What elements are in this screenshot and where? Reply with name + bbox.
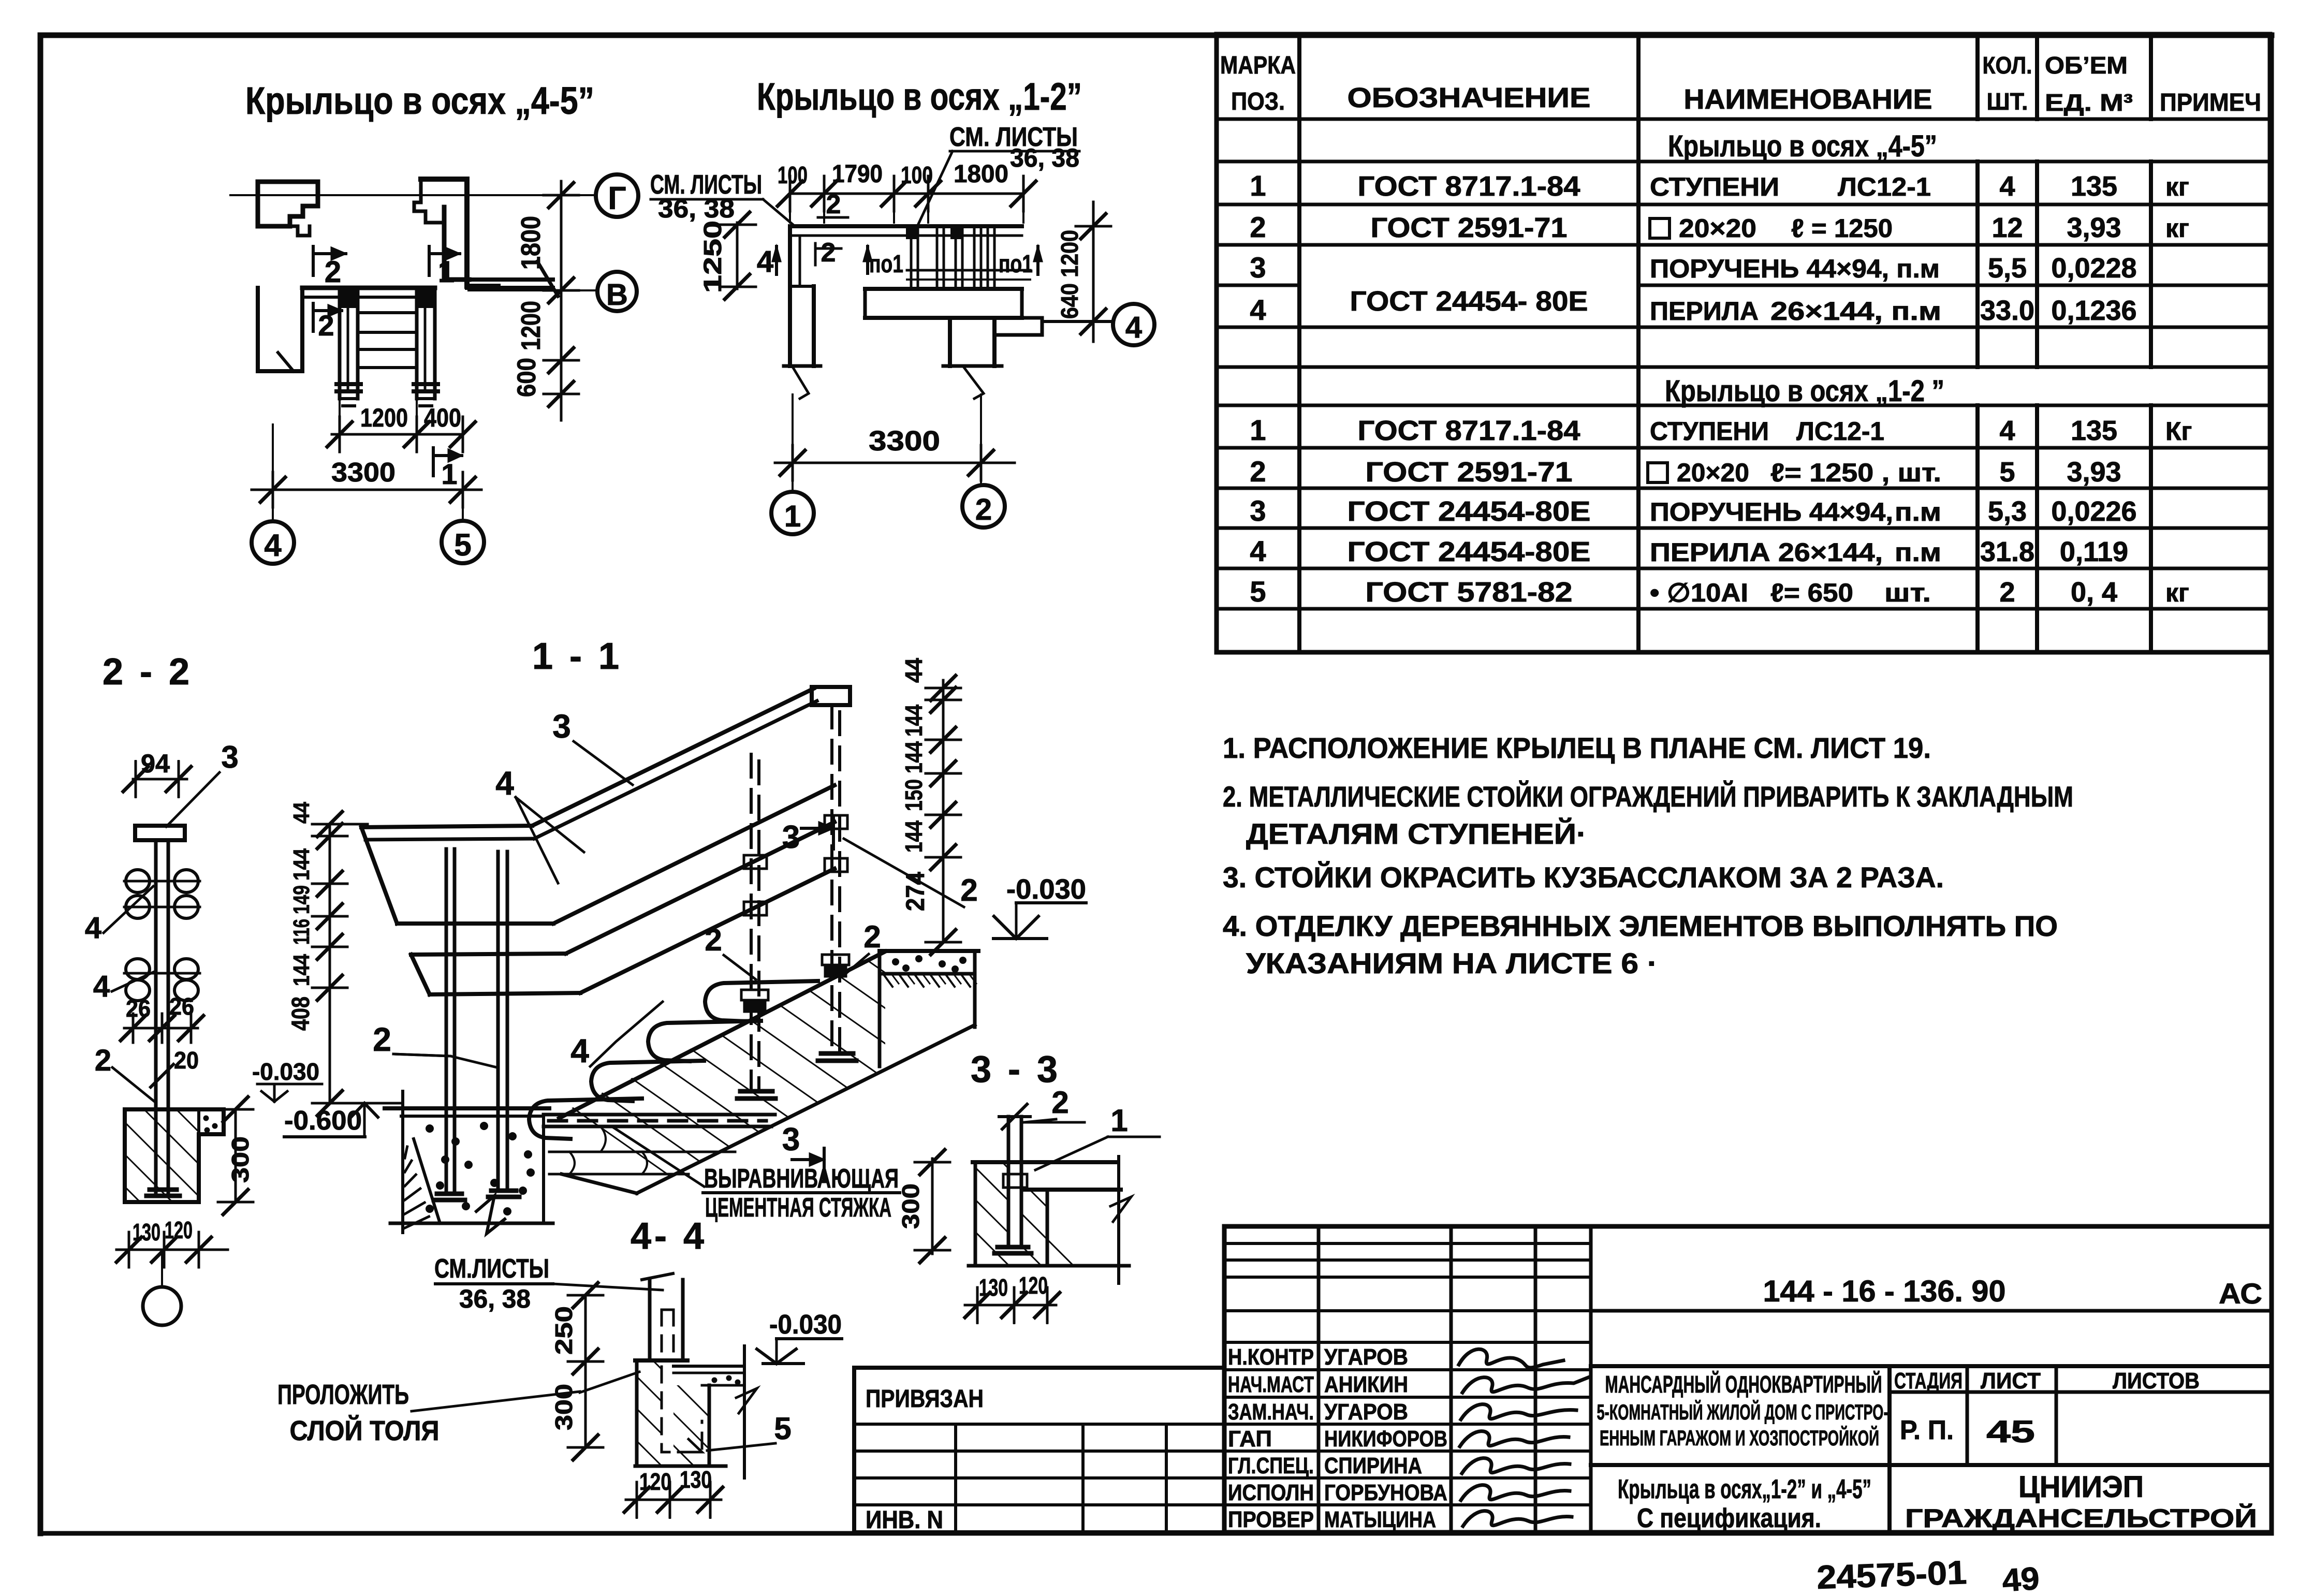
svg-text:ГОСТ 8717.1-84: ГОСТ 8717.1-84 <box>1358 415 1580 446</box>
svg-text:400: 400 <box>424 403 461 432</box>
svg-text:2: 2 <box>960 873 977 907</box>
svg-text:1: 1 <box>1250 414 1266 446</box>
axis bubble В <box>597 272 637 311</box>
svg-text:ПРОЛОЖИТЬ: ПРОЛОЖИТЬ <box>277 1379 409 1410</box>
svg-text:5: 5 <box>774 1411 791 1446</box>
svg-text:АС: АС <box>2219 1277 2262 1310</box>
svg-text:36, 38: 36, 38 <box>1010 143 1079 172</box>
svg-text:100: 100 <box>778 162 808 188</box>
platform ground hatch ticks <box>884 975 892 987</box>
svg-text:кг: кг <box>2165 578 2189 607</box>
svg-text:5: 5 <box>454 528 471 562</box>
spec table outer border <box>1217 34 2270 652</box>
right dim stack 44-144-150-144-274 <box>942 680 945 942</box>
axis bubble 1 <box>771 492 814 534</box>
svg-text:135: 135 <box>2071 171 2117 202</box>
svg-text:СТАДИЯ: СТАДИЯ <box>1894 1368 1963 1394</box>
svg-text:12: 12 <box>1992 212 2023 243</box>
svg-text:КОЛ.: КОЛ. <box>1983 52 2032 79</box>
detail 4-4 dim 250 <box>584 1295 587 1361</box>
svg-text:1: 1 <box>1250 169 1266 202</box>
svg-text:94: 94 <box>141 749 170 778</box>
svg-text:ПОЗ.: ПОЗ. <box>1231 88 1285 115</box>
handrail sloped top lines <box>532 689 814 826</box>
svg-text:ЕННЫМ ГАРАЖОМ И ХОЗПОСТРОЙКОЙ: ЕННЫМ ГАРАЖОМ И ХОЗПОСТРОЙКОЙ <box>1600 1425 1879 1450</box>
mid rail line porch 1-2 <box>907 269 1030 272</box>
svg-text:26×144, п.м: 26×144, п.м <box>1770 297 1941 326</box>
svg-text:ЦНИИЭП: ЦНИИЭП <box>2018 1470 2144 1504</box>
svg-text:20×20: 20×20 <box>1677 458 1749 487</box>
wall end tick В <box>537 261 558 296</box>
title block outer <box>1224 1226 2272 1532</box>
svg-text:2: 2 <box>95 1044 111 1077</box>
svg-text:• ∅10АI: • ∅10АI <box>1650 578 1748 607</box>
svg-text:ГОСТ 2591-71: ГОСТ 2591-71 <box>1366 457 1573 488</box>
cement screed strip <box>544 1113 775 1117</box>
dashed post 2 mid bolt <box>822 955 849 965</box>
svg-text:ПРИВЯЗАН: ПРИВЯЗАН <box>866 1385 984 1413</box>
axis bubble Г <box>596 174 638 217</box>
spec table vertical lines <box>1297 34 1301 652</box>
svg-text:2 - 2: 2 - 2 <box>102 651 193 693</box>
svg-text:640 1200: 640 1200 <box>1056 230 1083 319</box>
rail board 2 sloped <box>566 822 834 954</box>
svg-text:1: 1 <box>438 255 455 289</box>
svg-text:В: В <box>606 278 628 312</box>
svg-text:300: 300 <box>227 1136 254 1183</box>
svg-text:49: 49 <box>2001 1561 2041 1596</box>
svg-text:4. ОТДЕЛКУ ДЕРЕВЯННЫХ ЭЛЕМЕ: 4. ОТДЕЛКУ ДЕРЕВЯННЫХ ЭЛЕМЕНТОВ ВЫПОЛНЯТ… <box>1223 910 2058 942</box>
svg-text:Крыльцо в осях „4-5”: Крыльцо в осях „4-5” <box>245 79 594 122</box>
svg-text:1 - 1: 1 - 1 <box>532 636 622 677</box>
railing posts porch 1-2 <box>910 226 913 289</box>
top dim line 100-1790-100-1800 <box>790 193 1023 195</box>
svg-text:ГАП: ГАП <box>1228 1426 1272 1452</box>
svg-text:ГРАЖДАНСЕЛЬСТРОЙ: ГРАЖДАНСЕЛЬСТРОЙ <box>1905 1503 2257 1533</box>
svg-text:116: 116 <box>289 919 314 945</box>
axis drop lines porch 1-2 <box>792 394 794 492</box>
svg-text:0, 4: 0, 4 <box>2071 577 2117 608</box>
svg-text:5: 5 <box>1999 457 2015 488</box>
detail 2-2 post <box>154 840 158 1192</box>
svg-text:1790: 1790 <box>832 160 883 188</box>
svg-text:5,5: 5,5 <box>1988 253 2027 284</box>
handrail horizontal board (upper) <box>361 826 532 827</box>
svg-text:ЗАМ.НАЧ.: ЗАМ.НАЧ. <box>1228 1399 1314 1425</box>
svg-text:ЛС12-1: ЛС12-1 <box>1838 172 1931 201</box>
svg-text:2: 2 <box>1999 577 2015 608</box>
detail 3-3 wall hatched <box>974 1162 977 1266</box>
svg-text:20: 20 <box>174 1047 199 1074</box>
axis 4 drop line <box>272 424 274 522</box>
svg-text:п.м: п.м <box>1895 497 1941 526</box>
svg-text:120: 120 <box>165 1217 193 1243</box>
svg-text:3. СТОЙКИ ОКРАСИТЬ КУЗБАССЛ: 3. СТОЙКИ ОКРАСИТЬ КУЗБАССЛАКОМ ЗА 2 РАЗ… <box>1223 861 1944 894</box>
svg-text:33.0: 33.0 <box>1980 295 2034 326</box>
svg-text:2. МЕТАЛЛИЧЕСКИЕ СТОЙКИ ОГРА: 2. МЕТАЛЛИЧЕСКИЕ СТОЙКИ ОГРАЖДЕНИЙ ПРИВА… <box>1223 780 2073 813</box>
svg-text:шт.: шт. <box>1884 578 1931 607</box>
svg-text:ГОСТ 24454-80Е: ГОСТ 24454-80Е <box>1348 536 1591 567</box>
svg-text:Г: Г <box>608 181 626 216</box>
svg-text:УГАРОВ: УГАРОВ <box>1324 1344 1408 1370</box>
svg-text:149: 149 <box>289 885 314 914</box>
detail 3-3 step slab <box>973 1160 1118 1164</box>
section mark 1 upper <box>428 246 431 275</box>
platform slab porch 1-2 <box>865 287 1022 291</box>
detail 3-3 base plate <box>998 1245 1028 1250</box>
svg-text:2: 2 <box>373 1021 391 1058</box>
section mark 1 lower <box>432 448 435 476</box>
svg-text:1: 1 <box>441 458 457 490</box>
axis bubble 5 <box>442 521 484 563</box>
detail 4-4 post <box>648 1280 652 1360</box>
svg-text:по1: по1 <box>999 251 1033 278</box>
svg-text:4: 4 <box>93 970 110 1003</box>
axis line В <box>468 289 596 291</box>
dim line 1200-400 <box>332 433 463 436</box>
dashed post 1 base plate <box>740 1089 772 1094</box>
svg-text:ЛИСТ: ЛИСТ <box>1981 1368 2041 1394</box>
svg-text:4: 4 <box>1999 415 2015 446</box>
dashed post 2 base plate <box>821 1051 853 1056</box>
svg-text:ПОРУЧЕНЬ 44×94, п.м: ПОРУЧЕНЬ 44×94, п.м <box>1650 254 1940 283</box>
svg-text:0,0228: 0,0228 <box>2051 253 2136 284</box>
svg-text:ШТ.: ШТ. <box>1987 88 2028 115</box>
title block verticals right part <box>1887 1366 1892 1532</box>
svg-text:п.м: п.м <box>1895 538 1941 567</box>
svg-text:ПЕРИЛА 26×144,: ПЕРИЛА 26×144, <box>1650 538 1883 567</box>
svg-text:ПРИМЕЧ: ПРИМЕЧ <box>2160 89 2261 116</box>
axis bubble 2 <box>962 485 1005 528</box>
svg-text:СЛОЙ ТОЛЯ: СЛОЙ ТОЛЯ <box>290 1415 440 1446</box>
svg-text:2: 2 <box>325 255 341 289</box>
svg-text:кг: кг <box>2165 214 2189 243</box>
svg-text:4: 4 <box>1250 294 1266 326</box>
svg-text:144: 144 <box>289 848 314 881</box>
svg-text:20×20: 20×20 <box>1679 214 1756 243</box>
pit ground top lines <box>385 1106 549 1110</box>
svg-text:-0.030: -0.030 <box>1006 874 1086 905</box>
rail board 2 horizontal <box>411 954 566 955</box>
masonry course lines <box>549 1151 735 1153</box>
svg-text:ℓ= 650: ℓ= 650 <box>1770 578 1853 607</box>
svg-text:4- 4: 4- 4 <box>631 1216 707 1257</box>
detail 2-2 dim 300 <box>235 1109 237 1202</box>
post 2 anchor plate <box>491 1189 516 1193</box>
svg-text:СМ.ЛИСТЫ: СМ.ЛИСТЫ <box>434 1254 549 1284</box>
foundation pit left edge <box>401 1091 404 1233</box>
title block horizontals right part <box>1591 1309 2272 1313</box>
dim line 3300 (1-2) <box>775 462 1015 464</box>
svg-text:0,0226: 0,0226 <box>2051 496 2136 527</box>
stair stringer left (plan) <box>338 288 342 399</box>
svg-text:СТУПЕНИ: СТУПЕНИ <box>1650 417 1769 446</box>
svg-text:3: 3 <box>221 740 238 774</box>
svg-text:СПИРИНА: СПИРИНА <box>1324 1453 1422 1478</box>
pit bottom <box>390 1222 553 1225</box>
svg-text:ГОРБУНОВА: ГОРБУНОВА <box>1324 1480 1447 1505</box>
svg-text:АНИКИН: АНИКИН <box>1324 1372 1408 1397</box>
detail 3-3 bolt on post <box>1003 1174 1027 1188</box>
svg-text:5,3: 5,3 <box>1988 496 2027 527</box>
svg-text:3300: 3300 <box>869 426 940 457</box>
svg-text:3,93: 3,93 <box>2067 212 2121 243</box>
detail 3-3 right edge <box>1117 1156 1120 1283</box>
dashed post 1 mid bolt <box>741 990 768 1000</box>
stair plan 4-5 top edge <box>302 286 435 290</box>
detail 4-4 dim 300 <box>584 1361 587 1447</box>
post 2 (solid) <box>496 852 500 1191</box>
svg-text:1200: 1200 <box>516 301 546 350</box>
svg-text:3: 3 <box>782 1122 800 1158</box>
left dim stack 44-144-149-116-144-408 <box>329 824 331 1103</box>
svg-text:5: 5 <box>1250 575 1266 608</box>
dashed post 1 <box>750 754 753 1091</box>
detail 2-2 anchor plate <box>150 1188 177 1192</box>
svg-text:31.8: 31.8 <box>1980 536 2034 567</box>
svg-text:274: 274 <box>901 872 930 911</box>
svg-text:144: 144 <box>900 705 927 737</box>
right column porch 1-2 <box>948 318 952 366</box>
svg-text:-0.030: -0.030 <box>252 1058 319 1085</box>
post 1 (solid) <box>445 849 448 1194</box>
privyazan table rows <box>854 1423 1224 1426</box>
svg-text:УКАЗАНИЯМ НА ЛИСТЕ 6 ·: УКАЗАНИЯМ НА ЛИСТЕ 6 · <box>1246 947 1658 979</box>
svg-text:24575-01: 24575-01 <box>1816 1554 1967 1596</box>
svg-text:1200: 1200 <box>360 403 408 432</box>
svg-text:ГОСТ 2591-71: ГОСТ 2591-71 <box>1371 212 1568 243</box>
dim line 3300 (4-5) <box>252 489 481 491</box>
detail 4-4 slab top <box>635 1358 687 1363</box>
svg-text:3300: 3300 <box>331 458 396 488</box>
section mark 2 upper <box>312 246 315 275</box>
porch 1-2 deck top line <box>790 224 1022 228</box>
svg-text:44: 44 <box>900 658 927 683</box>
svg-text:Крыльца в осях„1-2” и „4-5”: Крыльца в осях„1-2” и „4-5” <box>1618 1474 1871 1504</box>
axis bubble 4 <box>252 521 294 564</box>
detail 4-4 right edge <box>743 1346 746 1478</box>
svg-text:ЕД. М³: ЕД. М³ <box>2045 89 2133 116</box>
axis bubble 4 (right) <box>1113 304 1154 345</box>
svg-text:3 - 3: 3 - 3 <box>971 1049 1061 1090</box>
svg-text:3: 3 <box>782 819 800 855</box>
svg-text:-0.030: -0.030 <box>769 1310 842 1340</box>
svg-text:150: 150 <box>900 779 927 811</box>
svg-text:ОБОЗНАЧЕНИЕ: ОБОЗНАЧЕНИЕ <box>1348 82 1591 113</box>
svg-text:НАЧ.МАСТ: НАЧ.МАСТ <box>1228 1372 1314 1397</box>
svg-text:4: 4 <box>264 528 282 563</box>
dashed post 1 upper bolts <box>744 855 767 869</box>
svg-text:144: 144 <box>289 954 314 986</box>
dashed post 2 <box>830 705 833 1053</box>
svg-text:300: 300 <box>897 1183 924 1229</box>
axis 5 drop line <box>462 490 464 521</box>
svg-text:0,1236: 0,1236 <box>2051 295 2136 326</box>
svg-text:2: 2 <box>705 923 722 957</box>
svg-text:ДЕТАЛЯМ СТУПЕНЕЙ·: ДЕТАЛЯМ СТУПЕНЕЙ· <box>1246 817 1587 850</box>
wall plan upper-right Z-shape <box>421 179 498 286</box>
svg-text:ГОСТ 24454- 80Е: ГОСТ 24454- 80Е <box>1350 286 1588 317</box>
svg-text:600: 600 <box>512 358 541 397</box>
svg-text:135: 135 <box>2071 415 2117 446</box>
title block verticals left part <box>1317 1226 1321 1532</box>
detail 4-4 channel dashed <box>662 1367 702 1452</box>
svg-text:3: 3 <box>1250 494 1266 527</box>
pit soil wedge hatch <box>414 1139 440 1223</box>
wall 4 tick <box>278 353 294 371</box>
svg-text:2: 2 <box>318 309 334 342</box>
svg-text:ЛИСТОВ: ЛИСТОВ <box>2113 1368 2200 1394</box>
svg-text:ИСПОЛН: ИСПОЛН <box>1228 1480 1314 1505</box>
svg-text:26: 26 <box>126 995 151 1022</box>
right dim 640-1200 <box>1092 202 1095 342</box>
svg-text:НАИМЕНОВАНИЕ: НАИМЕНОВАНИЕ <box>1684 84 1932 115</box>
svg-text:130: 130 <box>680 1466 712 1493</box>
left wall below В <box>258 288 302 371</box>
stringer top bolts <box>340 289 358 306</box>
dashed post 2 upper bolts <box>825 815 847 829</box>
svg-text:408: 408 <box>287 997 315 1031</box>
svg-text:ГОСТ 5781-82: ГОСТ 5781-82 <box>1366 577 1573 608</box>
svg-text:1: 1 <box>784 500 801 533</box>
dim 1250 (left, vertical) <box>736 223 739 289</box>
svg-text:С пецификация.: С пецификация. <box>1637 1503 1821 1533</box>
svg-text:5-КОМНАТНЫЙ ЖИЛОЙ ДОМ С ПРИСТ: 5-КОМНАТНЫЙ ЖИЛОЙ ДОМ С ПРИСТРО- <box>1597 1399 1888 1424</box>
svg-text:кг: кг <box>2165 172 2189 201</box>
svg-text:Крыльцо в осях „4-5”: Крыльцо в осях „4-5” <box>1668 129 1937 163</box>
svg-text:4: 4 <box>1999 171 2015 202</box>
svg-text:2: 2 <box>821 238 836 268</box>
svg-text:УГАРОВ: УГАРОВ <box>1324 1399 1408 1425</box>
detail 2-2 handrail cap <box>135 826 185 840</box>
detail 4-4 floor lines right <box>673 1365 744 1368</box>
svg-text:144: 144 <box>900 821 927 853</box>
svg-text:МАНСАРДНЫЙ ОДНОКВАРТИРНЫЙ: МАНСАРДНЫЙ ОДНОКВАРТИРНЫЙ <box>1605 1371 1882 1398</box>
stair slab bottom diagonal <box>637 1025 975 1193</box>
svg-text:4: 4 <box>570 1032 589 1070</box>
post 1 anchor plate <box>437 1192 462 1196</box>
svg-text:300: 300 <box>550 1384 577 1430</box>
step lines (plan) <box>358 311 417 314</box>
svg-text:Кг: Кг <box>2165 417 2192 446</box>
svg-text:ЛС12-1: ЛС12-1 <box>1796 417 1884 446</box>
svg-text:Р. П.: Р. П. <box>1900 1415 1954 1445</box>
svg-text:1250: 1250 <box>699 221 727 293</box>
svg-text:ВЫРАВНИВАЮЩАЯ: ВЫРАВНИВАЮЩАЯ <box>704 1164 899 1194</box>
stair slab top diagonal <box>559 951 885 1118</box>
step right of platform <box>994 318 1042 335</box>
svg-text:4: 4 <box>1125 311 1142 344</box>
svg-text:4: 4 <box>1250 535 1266 567</box>
svg-text:-0.600: -0.600 <box>284 1106 362 1136</box>
svg-text:2: 2 <box>863 919 881 954</box>
detail 2-2 axis drop + bubble <box>161 1250 163 1287</box>
svg-text:36, 38: 36, 38 <box>459 1284 531 1313</box>
left column porch 1-2 <box>788 226 792 366</box>
detail 2-2 lower rail pieces <box>126 959 150 979</box>
detail 2-2 foundation block <box>125 1109 224 1202</box>
svg-text:100: 100 <box>901 162 933 188</box>
wall leg to B <box>469 277 553 282</box>
svg-text:ГЛ.СПЕЦ.: ГЛ.СПЕЦ. <box>1228 1453 1314 1478</box>
privyazan table outer <box>854 1368 1224 1532</box>
svg-text:ℓ = 1250: ℓ = 1250 <box>1791 214 1893 243</box>
svg-text:4: 4 <box>757 245 773 279</box>
detail 2-2 upper rail pieces <box>126 870 150 892</box>
spec table horizontal lines <box>1217 118 2270 121</box>
svg-text:45: 45 <box>1986 1414 2035 1449</box>
stair steps (bullnose) <box>705 981 818 1021</box>
svg-text:ПОРУЧЕНЬ 44×94,: ПОРУЧЕНЬ 44×94, <box>1650 497 1893 526</box>
svg-text:ГОСТ 8717.1-84: ГОСТ 8717.1-84 <box>1358 171 1580 202</box>
svg-text:0,119: 0,119 <box>2060 536 2128 567</box>
stringer bottom anchors <box>336 382 361 386</box>
detail 3-3 dim 300 <box>931 1159 934 1254</box>
svg-text:Н.КОНТР: Н.КОНТР <box>1228 1344 1314 1370</box>
svg-text:3: 3 <box>552 708 571 745</box>
svg-text:ℓ= 1250 , шт.: ℓ= 1250 , шт. <box>1770 458 1941 487</box>
detail 4-4 foundation hatched <box>635 1360 639 1466</box>
platform top concrete band <box>880 949 978 953</box>
svg-text:МАРКА: МАРКА <box>1220 52 1296 79</box>
svg-text:2: 2 <box>975 493 992 526</box>
svg-text:250: 250 <box>550 1306 577 1355</box>
left column break mark <box>784 364 821 368</box>
svg-text:4: 4 <box>495 765 514 802</box>
pit concrete speckles <box>427 1125 433 1132</box>
signatures scribbles <box>1459 1349 1563 1368</box>
svg-text:2: 2 <box>1250 211 1266 243</box>
svg-text:144 - 16 - 136. 90: 144 - 16 - 136. 90 <box>1763 1275 2006 1308</box>
svg-text:Крыльцо в осях „1-2”: Крыльцо в осях „1-2” <box>757 75 1082 118</box>
svg-text:ЦЕМЕНТНАЯ СТЯЖКА: ЦЕМЕНТНАЯ СТЯЖКА <box>705 1193 891 1223</box>
detail 3-3 post <box>1007 1117 1011 1247</box>
svg-text:ИНВ. N: ИНВ. N <box>866 1506 943 1534</box>
axis line Г <box>230 194 595 196</box>
vertical dim line 1800-1200-600 <box>560 181 563 420</box>
privyazan table columns <box>954 1424 957 1532</box>
pit break mark <box>476 1196 505 1234</box>
svg-text:1800: 1800 <box>516 216 546 270</box>
top post cap <box>812 687 850 705</box>
svg-text:СТУПЕНИ: СТУПЕНИ <box>1650 172 1779 201</box>
svg-text:2: 2 <box>1250 455 1266 488</box>
svg-text:44: 44 <box>289 802 314 824</box>
section mark 2 lower <box>312 303 315 331</box>
svg-text:Крыльцо в осях „1-2 ”: Крыльцо в осях „1-2 ” <box>1665 374 1944 408</box>
svg-text:ГОСТ 24454-80Е: ГОСТ 24454-80Е <box>1348 496 1591 527</box>
svg-text:4: 4 <box>85 911 101 945</box>
svg-text:ПЕРИЛА: ПЕРИЛА <box>1650 297 1759 326</box>
svg-text:1. РАСПОЛОЖЕНИЕ КРЫЛЕЦ В ПЛ: 1. РАСПОЛОЖЕНИЕ КРЫЛЕЦ В ПЛАНЕ СМ. ЛИСТ … <box>1223 731 1931 764</box>
svg-text:1: 1 <box>1110 1103 1127 1138</box>
pit right edge <box>542 1116 545 1223</box>
svg-text:ПРОВЕР: ПРОВЕР <box>1228 1507 1314 1532</box>
level -0.600 connector <box>330 1102 403 1105</box>
svg-text:3: 3 <box>1250 251 1266 284</box>
svg-text:2: 2 <box>1051 1085 1068 1120</box>
svg-text:по1: по1 <box>869 251 903 278</box>
svg-text:ОБ’ЕМ: ОБ’ЕМ <box>2045 52 2128 79</box>
svg-text:144: 144 <box>900 741 927 773</box>
svg-text:1800: 1800 <box>954 160 1008 188</box>
wall plan upper-left <box>258 182 318 226</box>
stair stringer right (plan) <box>415 288 419 399</box>
title block horizontals left part <box>1224 1242 1591 1245</box>
svg-text:МАТЫЦИНА: МАТЫЦИНА <box>1324 1507 1436 1532</box>
svg-text:НИКИФОРОВ: НИКИФОРОВ <box>1324 1426 1447 1452</box>
svg-text:2: 2 <box>826 189 841 219</box>
